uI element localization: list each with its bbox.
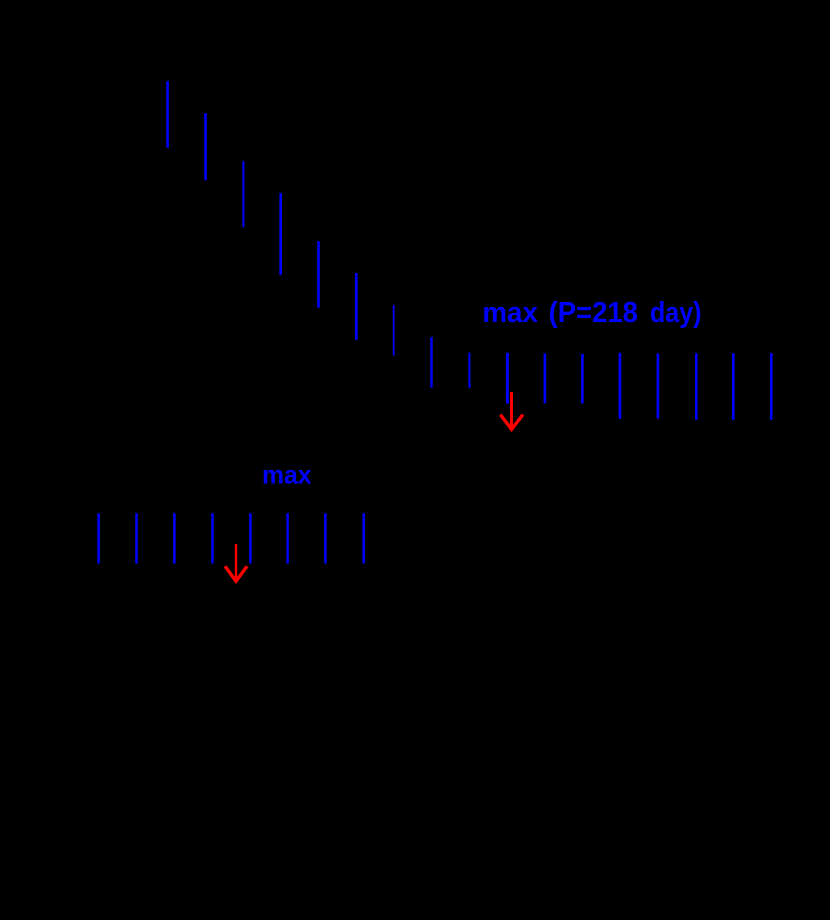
lower harmonic tick 8: [362, 513, 365, 563]
svg-text:max: max: [262, 460, 312, 490]
lower harmonic tick 5: [249, 513, 252, 563]
upper harmonic tick 3: [242, 161, 244, 227]
lower harmonic tick 4: [211, 513, 214, 563]
upper harmonic tick 17: [770, 353, 773, 420]
lower harmonic tick 3: [173, 513, 176, 563]
upper harmonic tick 4: [279, 193, 282, 275]
lower red arrow (marks max): [225, 544, 247, 581]
upper harmonic tick 15: [695, 353, 698, 420]
lower harmonic tick 6: [286, 513, 289, 563]
upper harmonic tick 7: [393, 305, 395, 355]
upper harmonic tick 16: [732, 353, 735, 420]
upper harmonic tick 12: [581, 354, 584, 403]
upper harmonic tick 5: [317, 241, 320, 308]
upper harmonic tick 14: [657, 353, 660, 418]
svg-text:(P=218: (P=218: [549, 297, 638, 329]
upper harmonic tick 8: [430, 337, 432, 388]
upper harmonic tick 6: [355, 273, 358, 340]
lower harmonic tick 2: [135, 513, 138, 563]
lower harmonic tick 7: [324, 513, 327, 563]
svg-text:day): day): [650, 297, 702, 329]
upper harmonic tick 11: [544, 353, 547, 403]
label: max (P=218 day): [482, 297, 701, 329]
upper harmonic tick 13: [619, 353, 622, 419]
lower harmonic tick 1: [97, 513, 100, 563]
upper red arrow (marks max of P=218 day): [500, 392, 523, 429]
upper harmonic tick 10: [506, 353, 509, 404]
upper harmonic tick 9: [468, 353, 470, 388]
svg-text:max: max: [482, 297, 538, 329]
upper harmonic tick 1: [166, 81, 169, 148]
upper harmonic tick 2: [204, 113, 207, 180]
